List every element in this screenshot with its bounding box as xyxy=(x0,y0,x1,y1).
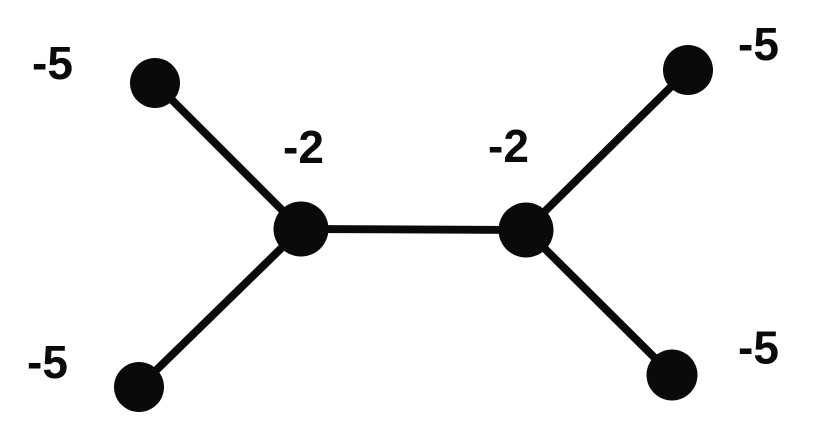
svg-text:-5: -5 xyxy=(738,322,779,374)
svg-text:-5: -5 xyxy=(738,18,779,70)
svg-text:-5: -5 xyxy=(32,37,73,89)
svg-text:-2: -2 xyxy=(283,121,324,173)
svg-text:-2: -2 xyxy=(488,120,529,172)
svg-text:-5: -5 xyxy=(27,336,68,388)
